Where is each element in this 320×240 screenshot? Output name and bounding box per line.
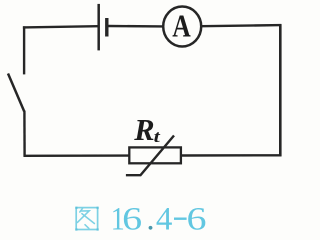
thermistor Rt diagonal stroke with bent foot xyxy=(126,136,174,176)
svg-text:6: 6 xyxy=(122,201,142,236)
svg-text:t: t xyxy=(154,127,161,146)
caption character 图 (drawn strokes) xyxy=(76,208,97,230)
wire bottom-right horizontal xyxy=(181,154,282,157)
battery cell short plate (-) xyxy=(105,18,108,37)
wire battery to ammeter xyxy=(108,25,163,28)
label Rt xyxy=(133,113,160,147)
svg-text:6: 6 xyxy=(187,201,207,236)
wire left vertical lower (switch bottom terminal) xyxy=(23,111,26,157)
caption 图 box corner dots xyxy=(75,207,98,231)
svg-text:.: . xyxy=(146,201,154,236)
wire right vertical xyxy=(279,24,282,156)
wire left vertical upper (switch top terminal) xyxy=(23,26,25,74)
wire ammeter to top-right corner xyxy=(202,25,281,26)
battery cell long plate (+) xyxy=(97,4,100,51)
caption 图 16.4-6 xyxy=(75,201,206,237)
switch S blade (open) xyxy=(8,74,24,112)
wire top-left horizontal xyxy=(23,26,98,27)
thermistor Rt body box xyxy=(129,147,181,163)
caption text 16.4-6 xyxy=(111,201,207,237)
ammeter A circle xyxy=(163,7,201,47)
wire bottom-left horizontal xyxy=(24,154,130,157)
svg-text:4: 4 xyxy=(156,201,173,236)
svg-text:A: A xyxy=(172,9,191,44)
svg-text:R: R xyxy=(133,113,154,147)
